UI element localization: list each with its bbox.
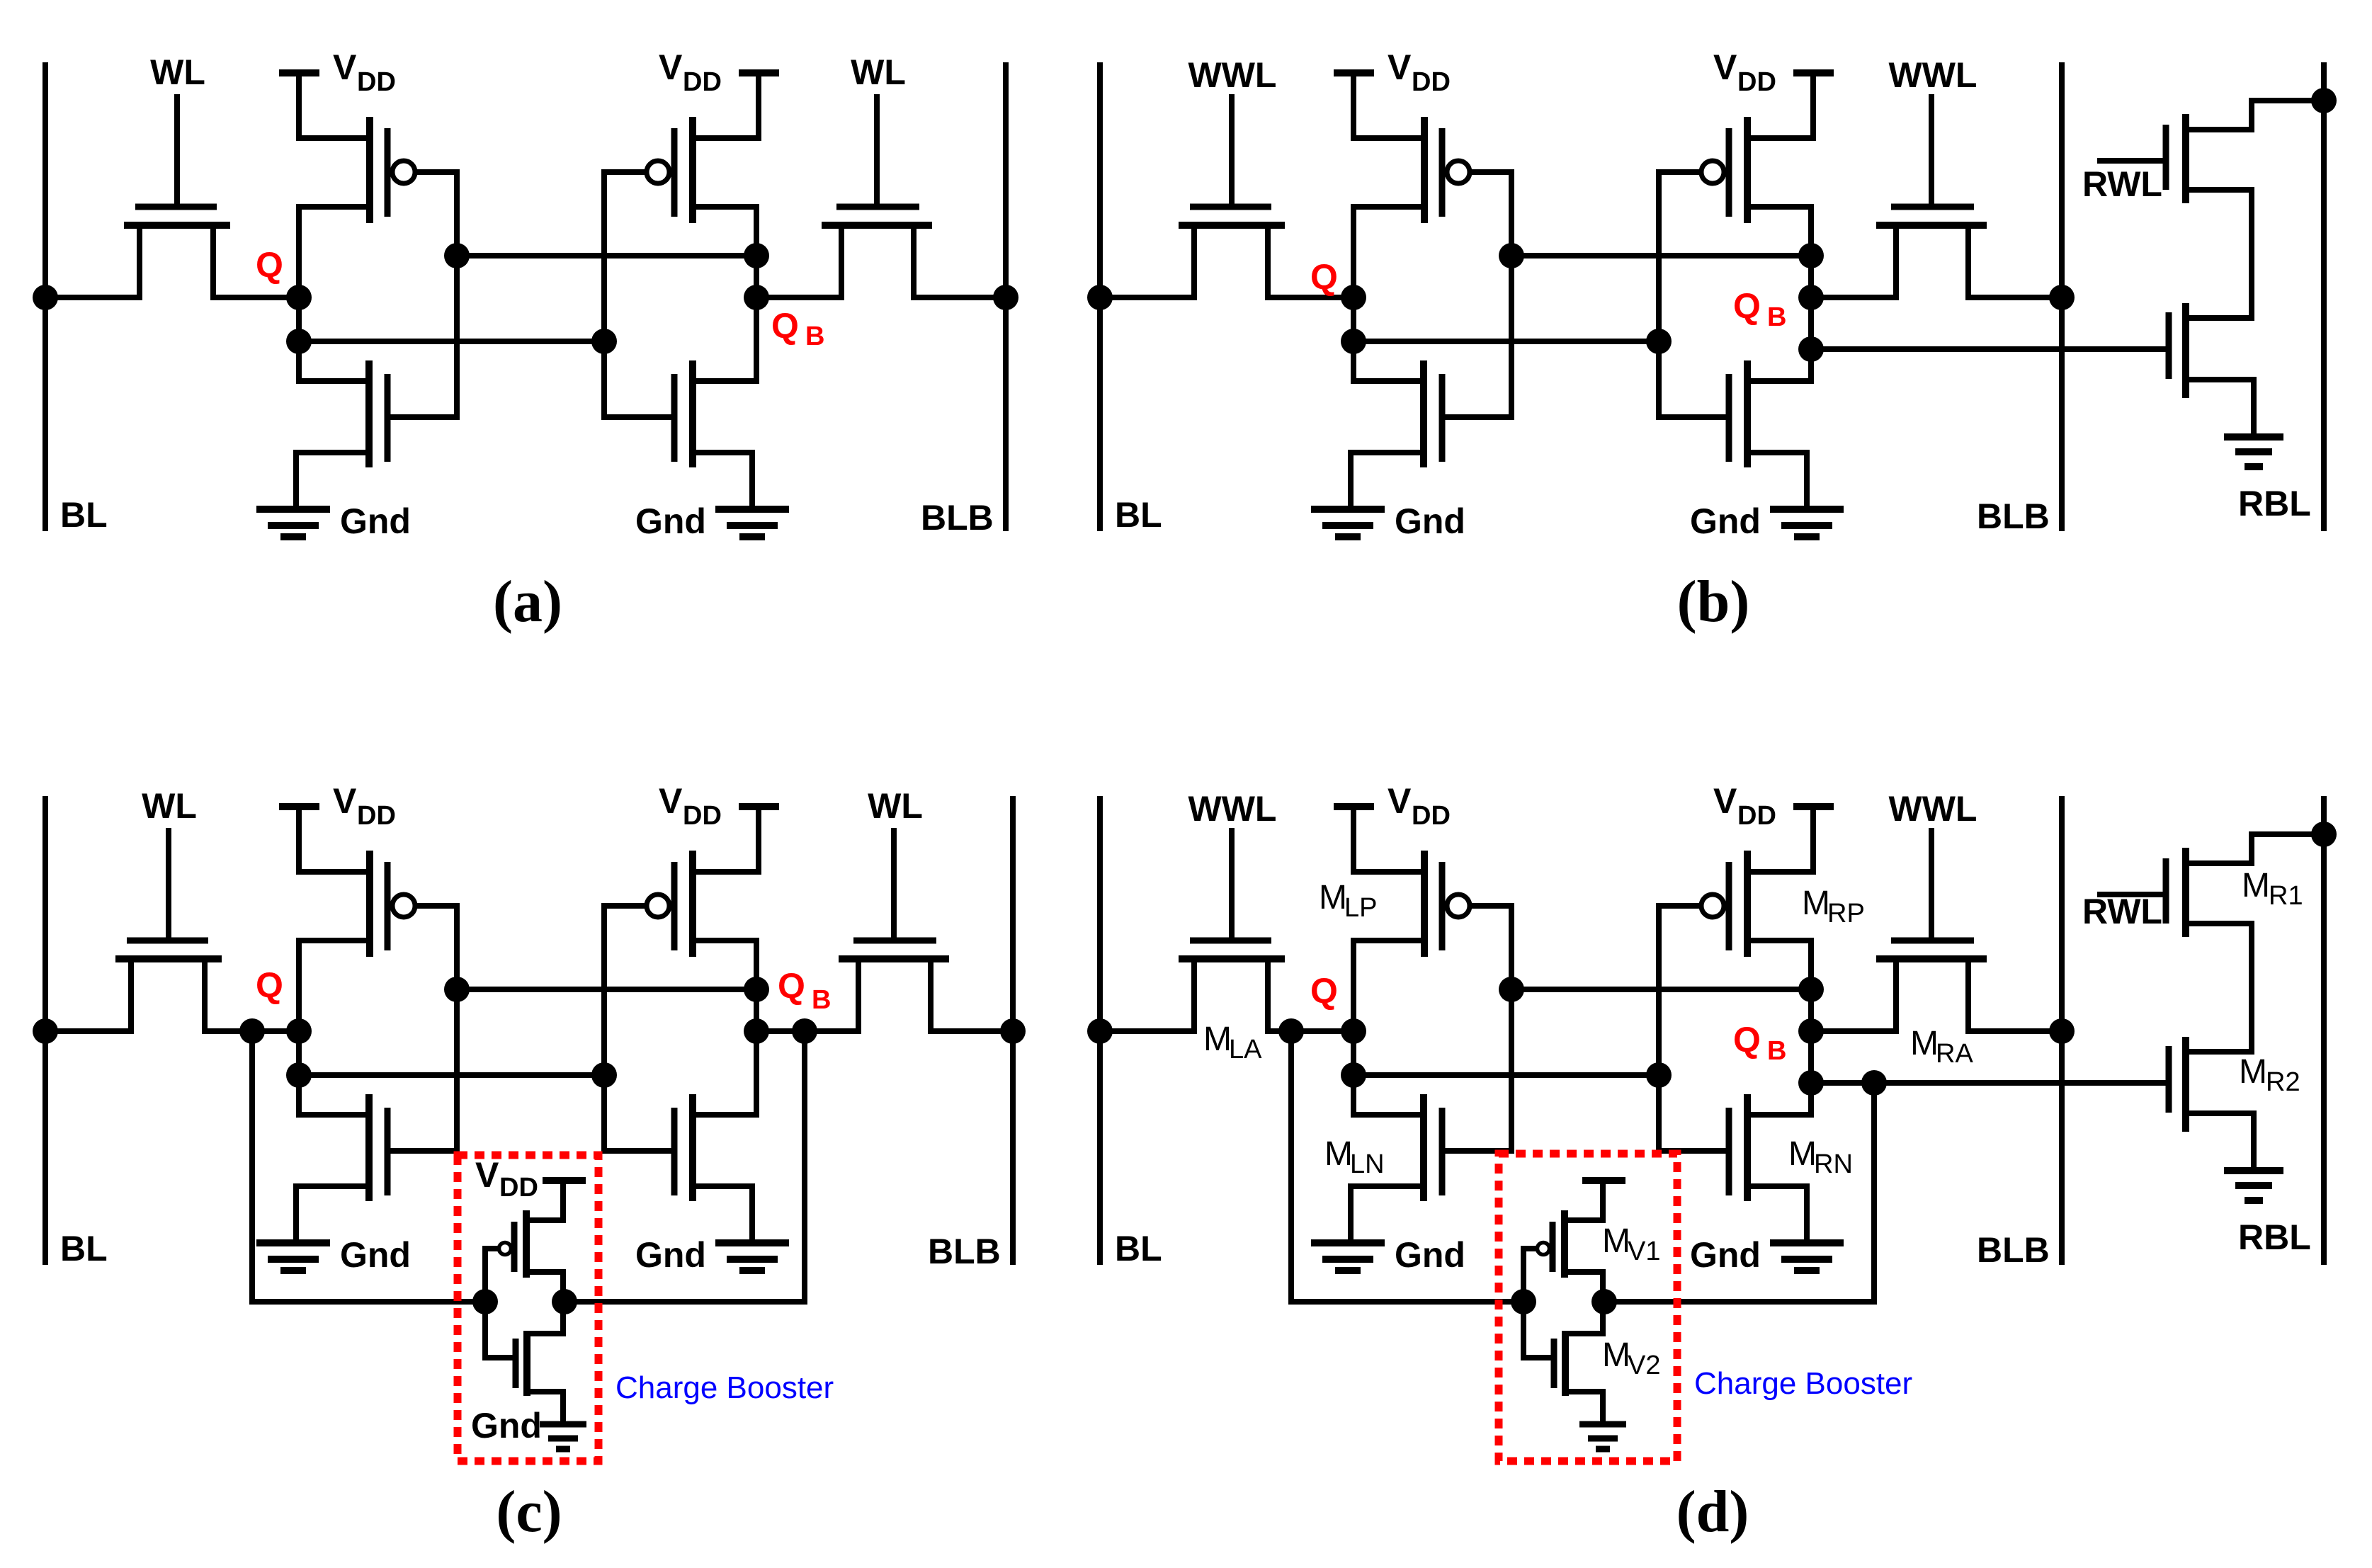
svg-text:M: M (1802, 885, 1830, 922)
svg-text:Q: Q (256, 245, 283, 285)
svg-text:DD: DD (1412, 67, 1451, 97)
svg-text:Q: Q (1310, 257, 1338, 297)
(c) node booster left dot (472, 1289, 498, 1314)
(b) node BLB junction dot (2049, 285, 2075, 310)
(b) wire QB to read gate M_R2 (1811, 346, 2169, 352)
svg-text:(b): (b) (1677, 569, 1750, 635)
svg-text:BL: BL (60, 495, 108, 535)
(b) read bit line RBL (2321, 65, 2327, 528)
svg-text:V: V (659, 47, 683, 87)
svg-text:Gnd: Gnd (340, 501, 411, 541)
(c) wire QB to booster (564, 1031, 805, 1302)
(d) label VDD right (1713, 781, 1776, 831)
(c) node dot upper-right (744, 977, 769, 1002)
(b) wire node Q vertical (1351, 207, 1356, 381)
(c) node Q dot (286, 1018, 312, 1044)
(d) wire right gate vertical (1656, 906, 1662, 1151)
(c) pmos transistor pull-up left (299, 851, 457, 957)
svg-text:V: V (1388, 47, 1412, 87)
caption (a) (493, 569, 562, 635)
(a) wire right gate vertical (601, 172, 607, 417)
(d) node BLB junction dot (2049, 1018, 2075, 1044)
(a) bit line BLB (1003, 65, 1009, 528)
(b) node dot lower-right (1646, 329, 1672, 354)
svg-text:B: B (1767, 302, 1786, 332)
svg-text:DD: DD (357, 67, 396, 97)
(c) wire access to node Q (205, 1028, 299, 1034)
(d) nmos booster M_V2 (1523, 1302, 1603, 1421)
(d) label M_RA (1910, 1025, 1973, 1069)
svg-text:BLB: BLB (1977, 1230, 2050, 1270)
(d) label Gnd left (1395, 1235, 1465, 1275)
(d) ground symbol booster (1579, 1424, 1626, 1449)
svg-text:DD: DD (683, 67, 722, 97)
svg-text:BLB: BLB (928, 1232, 1001, 1271)
(c) wire node QB vertical (754, 941, 759, 1115)
(d) label M_LN (1324, 1135, 1385, 1179)
svg-text:DD: DD (1412, 801, 1451, 831)
(a) node BL junction dot (33, 285, 58, 310)
(b) label BLB (1977, 496, 2050, 536)
(b) label QB (1733, 286, 1786, 332)
(d) node dot lower-right (1646, 1062, 1672, 1088)
(d) nmos read transistor M_R1 (2166, 834, 2324, 1052)
svg-text:RWL: RWL (2082, 892, 2162, 931)
(b) power VDD right T-bar (1793, 73, 1834, 138)
caption (d) (1676, 1479, 1749, 1545)
(d) wire QB to read gate M_R2 (1811, 1080, 2169, 1086)
svg-text:(d): (d) (1676, 1479, 1749, 1545)
(c) wire access to BLB (931, 1028, 1013, 1034)
(a) label BL (60, 495, 108, 535)
(b) node QB read dot (1798, 336, 1824, 362)
(b) wire access to node Q (1268, 295, 1354, 300)
(b) node Q lower dot (1341, 329, 1366, 354)
(d) wire node QB vertical (1808, 941, 1814, 1115)
(c) nmos transistor pull-down right (604, 1094, 756, 1241)
(d) node dot upper-left (1499, 977, 1524, 1002)
svg-text:RBL: RBL (2238, 484, 2311, 523)
(b) wire lower cross-couple (1354, 339, 1659, 344)
(b) wire node QB vertical (1808, 207, 1814, 381)
(c) label Gnd right (635, 1235, 706, 1275)
(d) node booster left dot (1511, 1289, 1536, 1314)
(c) wire QB to access right (756, 1028, 858, 1034)
(a) nmos transistor pull-down right (604, 360, 756, 507)
svg-text:Gnd: Gnd (635, 501, 706, 541)
(a) nmos transistor pull-down left (296, 360, 457, 507)
(d) wire lower cross-couple (1354, 1072, 1659, 1078)
svg-text:B: B (812, 985, 831, 1015)
(b) label WWL left (1188, 55, 1277, 95)
(b) label Gnd right (1690, 501, 1761, 541)
svg-text:M: M (1602, 1222, 1630, 1260)
(c) power VDD right T-bar (739, 807, 779, 872)
(c) wire booster gate vertical (482, 1249, 488, 1358)
(c) wire lower cross-couple (299, 1072, 604, 1078)
(a) label VDD left (333, 47, 396, 97)
svg-text:Gnd: Gnd (471, 1406, 542, 1445)
svg-text:Q: Q (771, 306, 799, 346)
(d) node QB dot (1798, 1018, 1824, 1044)
svg-text:LN: LN (1350, 1149, 1385, 1179)
(b) nmos transistor pull-down left (1351, 360, 1511, 507)
(d) node Q dot (1341, 1018, 1366, 1044)
svg-text:WL: WL (868, 786, 923, 826)
svg-text:M: M (1203, 1021, 1232, 1058)
(d) node booster read junction dot (1861, 1070, 1887, 1096)
(c) nmos booster M_V2 (485, 1302, 563, 1421)
caption (c) (496, 1479, 562, 1545)
(a) label Q (256, 245, 283, 285)
(b) pmos transistor pull-up right (1659, 117, 1813, 223)
(d) label RBL (2238, 1217, 2311, 1257)
(d) label Charge Booster (1694, 1366, 1912, 1401)
svg-text:WWL: WWL (1188, 789, 1277, 829)
(d) node dot upper-right (1798, 977, 1824, 1002)
(c) wire Q to booster (252, 1031, 485, 1302)
svg-text:BL: BL (60, 1229, 108, 1268)
svg-text:(c): (c) (496, 1479, 562, 1545)
(a) wire lower cross-couple (299, 339, 604, 344)
(b) wire BL to access M left (1100, 295, 1194, 300)
(d) node Q booster dot (1278, 1018, 1304, 1044)
(d) wire QB to access right (1811, 1028, 1896, 1034)
(b) label RWL (2082, 164, 2162, 204)
(c) wire upper cross-couple (457, 987, 756, 992)
(c) label BL (60, 1229, 108, 1268)
(c) ground symbol booster (540, 1424, 586, 1449)
(b) label Q (1310, 257, 1338, 297)
(d) label RWL (2082, 892, 2162, 931)
(c) nmos access transistor access right (839, 831, 949, 1031)
(d) ground symbol read port (2224, 1171, 2283, 1200)
(a) power VDD right T-bar (739, 73, 779, 138)
(d) power VDD right T-bar (1793, 807, 1834, 872)
svg-text:RA: RA (1936, 1039, 1973, 1069)
(a) wire QB to access right (756, 295, 841, 300)
(d) label BLB (1977, 1230, 2050, 1270)
(d) pmos booster M_V1 (1523, 1181, 1625, 1302)
svg-text:DD: DD (1737, 801, 1776, 831)
(d) label M_V2 (1602, 1336, 1660, 1380)
(d) power VDD left T-bar (1334, 807, 1374, 872)
(c) label BLB (928, 1232, 1001, 1271)
(b) wire left gate vertical (1509, 172, 1514, 417)
(d) node Q lower dot (1341, 1062, 1366, 1088)
(b) ground symbol left (1311, 509, 1385, 537)
svg-text:Q: Q (256, 965, 283, 1005)
svg-text:Gnd: Gnd (635, 1235, 706, 1275)
(b) nmos access transistor access right (1876, 97, 1987, 297)
(b) ground symbol read port (2224, 437, 2283, 467)
(d) nmos transistor M_RN (1659, 1094, 1811, 1241)
(c) node QB booster dot (792, 1018, 817, 1044)
(c) bit line BL (42, 799, 48, 1262)
svg-text:V: V (333, 47, 357, 87)
(c) label WL left (142, 786, 197, 826)
svg-text:BLB: BLB (921, 498, 994, 538)
(a) label Gnd right (635, 501, 706, 541)
(a) wire upper cross-couple (457, 253, 756, 259)
(d) label WWL left (1188, 789, 1277, 829)
(b) nmos read transistor M_R2 (2169, 303, 2254, 436)
svg-text:Gnd: Gnd (1395, 501, 1465, 541)
svg-text:V: V (475, 1155, 499, 1195)
(c) ground symbol right (715, 1243, 789, 1271)
svg-text:DD: DD (1737, 67, 1776, 97)
(a) label BLB (921, 498, 994, 538)
(d) bit line BL (1097, 799, 1103, 1262)
(a) label WL right (851, 52, 906, 92)
svg-text:Gnd: Gnd (1690, 1235, 1761, 1275)
(a) label WL left (150, 52, 205, 92)
(a) node dot upper-left (444, 243, 470, 268)
(c) nmos access transistor access left (115, 831, 222, 1031)
(c) label Gnd left (340, 1235, 411, 1275)
(b) bit line BL (1097, 65, 1103, 528)
(c) node BL junction dot (33, 1018, 58, 1044)
(c) node BLB junction dot (1000, 1018, 1026, 1044)
svg-text:WL: WL (142, 786, 197, 826)
(b) label Gnd left (1395, 501, 1465, 541)
(d) wire BL to access M left (1100, 1028, 1194, 1034)
svg-text:BL: BL (1115, 495, 1162, 535)
(a) ground symbol right (715, 509, 789, 537)
(d) node RBL top dot (2311, 822, 2337, 847)
(d) wire upper cross-couple (1511, 987, 1811, 992)
svg-text:LA: LA (1229, 1035, 1262, 1064)
(a) nmos access transistor access right (822, 97, 932, 297)
(c) wire right gate vertical (601, 906, 607, 1151)
(c) label VDD left (333, 781, 396, 831)
(a) node Q dot (286, 285, 312, 310)
(a) node Q lower dot (286, 329, 312, 354)
(a) node QB dot (744, 285, 769, 310)
(c) label VDD right (659, 781, 722, 831)
(b) pmos transistor pull-up left (1354, 117, 1511, 223)
(b) node dot upper-left (1499, 243, 1524, 268)
svg-text:M: M (1324, 1135, 1353, 1173)
(a) wire left gate vertical (454, 172, 460, 417)
svg-text:Gnd: Gnd (1690, 501, 1761, 541)
(b) bit line BLB (2059, 65, 2065, 528)
(d) label VDD left (1388, 781, 1451, 831)
(d) wire node Q vertical (1351, 941, 1356, 1115)
(a) wire BL to access M left (45, 295, 140, 300)
svg-text:BLB: BLB (1977, 496, 2050, 536)
svg-text:(a): (a) (493, 569, 562, 635)
(a) wire node Q vertical (296, 207, 302, 381)
svg-text:WL: WL (851, 52, 906, 92)
(b) label RBL (2238, 484, 2311, 523)
(c) pmos booster M_V1 (485, 1181, 586, 1302)
(c) charge booster dashed box (458, 1155, 598, 1461)
(d) label M_LP (1319, 879, 1377, 923)
(c) label Q (256, 965, 283, 1005)
(b) wire RWL gate lead (2100, 158, 2166, 164)
svg-text:Q: Q (1733, 286, 1761, 326)
(c) label QB (778, 966, 831, 1015)
(d) label QB (1733, 1020, 1786, 1066)
svg-text:RBL: RBL (2238, 1217, 2311, 1257)
(b) label VDD left (1388, 47, 1451, 97)
(b) node Q dot (1341, 285, 1366, 310)
(d) pmos transistor M_LP (1354, 851, 1511, 957)
(d) node QB read dot (1798, 1070, 1824, 1096)
(d) label WWL right (1889, 789, 1977, 829)
svg-text:V: V (1388, 781, 1412, 821)
(c) wire left gate vertical (454, 906, 460, 1151)
(c) node dot upper-left (444, 977, 470, 1002)
svg-text:WL: WL (150, 52, 205, 92)
(d) wire booster gate vertical (1521, 1249, 1526, 1358)
(a) power VDD left T-bar (279, 73, 319, 138)
svg-text:V2: V2 (1628, 1351, 1660, 1380)
svg-text:B: B (805, 322, 824, 351)
(b) label BL (1115, 495, 1162, 535)
(b) nmos transistor pull-down right (1659, 360, 1811, 507)
(d) label M_RP (1802, 885, 1865, 928)
(c) power VDD left T-bar (279, 807, 319, 872)
(d) wire booster to QB read line (1604, 1083, 1874, 1302)
svg-text:V: V (1713, 781, 1737, 821)
svg-text:M: M (1910, 1025, 1939, 1062)
svg-text:Gnd: Gnd (1395, 1235, 1465, 1275)
(d) node BL junction dot (1087, 1018, 1113, 1044)
(c) node Q lower dot (286, 1062, 312, 1088)
(b) ground symbol right (1770, 509, 1844, 537)
(b) node dot upper-right (1798, 243, 1824, 268)
(d) node booster right dot (1591, 1289, 1617, 1314)
svg-text:RN: RN (1814, 1149, 1853, 1179)
svg-text:V1: V1 (1628, 1237, 1660, 1266)
(a) label QB (771, 306, 824, 351)
(b) node QB dot (1798, 285, 1824, 310)
(d) nmos access transistor M_RA (1876, 831, 1987, 1031)
svg-text:B: B (1767, 1036, 1786, 1066)
svg-text:DD: DD (499, 1173, 538, 1203)
svg-text:M: M (1319, 879, 1347, 916)
(d) charge booster dashed box (1499, 1154, 1677, 1461)
(d) wire Q to booster (1291, 1031, 1523, 1302)
svg-text:WWL: WWL (1188, 55, 1277, 95)
(a) wire access to node Q (213, 295, 299, 300)
(d) nmos read transistor M_R2 (2169, 1037, 2254, 1170)
(d) nmos transistor M_LN (1351, 1094, 1511, 1241)
(c) label VDD booster (475, 1155, 538, 1203)
svg-text:V: V (1713, 47, 1737, 87)
(d) ground symbol right (1770, 1243, 1844, 1271)
(a) nmos access transistor access left (124, 97, 230, 297)
(a) pmos transistor pull-up right (604, 117, 759, 223)
(c) bit line BLB (1010, 799, 1016, 1262)
svg-text:BL: BL (1115, 1229, 1162, 1268)
(a) node dot upper-right (744, 243, 769, 268)
(c) label Gnd booster (471, 1406, 542, 1445)
(d) read bit line RBL (2321, 799, 2327, 1262)
svg-text:RP: RP (1827, 899, 1865, 928)
(b) nmos read transistor M_R1 (2166, 101, 2324, 318)
(d) wire left gate vertical (1509, 906, 1514, 1151)
svg-text:R2: R2 (2266, 1067, 2300, 1097)
(c) pmos transistor pull-up right (604, 851, 759, 957)
svg-text:RWL: RWL (2082, 164, 2162, 204)
(b) wire right gate vertical (1656, 172, 1662, 417)
svg-text:Charge Booster: Charge Booster (615, 1370, 834, 1405)
(b) wire QB to access right (1811, 295, 1896, 300)
(a) wire access to BLB (914, 295, 1006, 300)
(d) label M_RN (1788, 1135, 1853, 1179)
(a) pmos transistor pull-up left (299, 117, 457, 223)
svg-text:Q: Q (1310, 971, 1338, 1011)
(b) wire access to BLB (1968, 295, 2062, 300)
(d) label Q (1310, 971, 1338, 1011)
svg-text:V: V (333, 781, 357, 821)
(d) wire access to node Q (1268, 1028, 1354, 1034)
(c) label WL right (868, 786, 923, 826)
(d) label M_LA (1203, 1021, 1262, 1064)
svg-text:V: V (659, 781, 683, 821)
(d) ground symbol left (1311, 1243, 1385, 1271)
(c) node dot lower-right (591, 1062, 617, 1088)
svg-text:M: M (1788, 1135, 1817, 1173)
svg-text:R1: R1 (2269, 881, 2303, 911)
(c) nmos transistor pull-down left (296, 1094, 457, 1241)
(d) label M_V1 (1602, 1222, 1660, 1266)
svg-text:WWL: WWL (1889, 789, 1977, 829)
(d) label BL (1115, 1229, 1162, 1268)
(d) pmos transistor M_RP (1659, 851, 1813, 957)
svg-text:DD: DD (357, 801, 396, 831)
(b) wire upper cross-couple (1511, 253, 1811, 259)
svg-text:M: M (2239, 1053, 2267, 1091)
svg-text:DD: DD (683, 801, 722, 831)
(d) wire RWL gate lead (2100, 892, 2166, 897)
(c) label Charge Booster (615, 1370, 834, 1405)
(d) label M_R2 (2239, 1053, 2300, 1097)
(c) node booster right dot (552, 1289, 577, 1314)
(c) node QB dot (744, 1018, 769, 1044)
(b) nmos access transistor access left (1179, 97, 1285, 297)
(a) node BLB junction dot (993, 285, 1018, 310)
(a) node dot lower-right (591, 329, 617, 354)
svg-text:Charge Booster: Charge Booster (1694, 1366, 1912, 1401)
svg-text:Q: Q (1733, 1020, 1761, 1059)
(a) label VDD right (659, 47, 722, 97)
(d) label Gnd right (1690, 1235, 1761, 1275)
(b) power VDD left T-bar (1334, 73, 1374, 138)
(c) node Q booster dot (239, 1018, 265, 1044)
svg-text:WWL: WWL (1889, 55, 1977, 95)
svg-text:Gnd: Gnd (340, 1235, 411, 1275)
(a) bit line BL (42, 65, 48, 528)
(a) label Gnd left (340, 501, 411, 541)
svg-text:Q: Q (778, 966, 805, 1006)
(a) wire node QB vertical (754, 207, 759, 381)
svg-text:M: M (1602, 1336, 1630, 1374)
(c) wire node Q vertical (296, 941, 302, 1115)
(b) node BL junction dot (1087, 285, 1113, 310)
(b) label VDD right (1713, 47, 1776, 97)
(c) ground symbol left (256, 1243, 330, 1271)
(d) bit line BLB (2059, 799, 2065, 1262)
svg-text:M: M (2242, 867, 2270, 904)
(d) nmos access transistor M_LA (1179, 831, 1285, 1031)
(a) ground symbol left (256, 509, 330, 537)
(d) label M_R1 (2242, 867, 2303, 911)
(c) wire BL to access M left (45, 1028, 131, 1034)
